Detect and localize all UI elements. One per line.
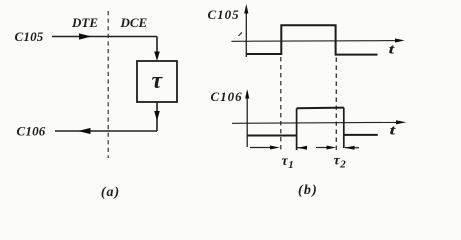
svg-text:C106: C106 xyxy=(211,89,243,104)
C106 axis up arrowhead xyxy=(245,89,249,99)
C105 vertical axis xyxy=(245,9,247,57)
svg-text:DCE: DCE xyxy=(120,15,148,30)
wire corner down from C105 into delay box xyxy=(156,37,158,55)
waveform C106 rising edge extended below axis xyxy=(296,108,298,150)
waveform C106 low segment after pulse xyxy=(344,134,378,136)
svg-text:C105: C105 xyxy=(208,7,240,22)
C105 axis up arrowhead xyxy=(244,4,248,14)
waveform C106 high segment xyxy=(297,107,344,110)
arrowhead on vertical wire pointing down xyxy=(154,111,160,121)
wire C106 horizontal back to DTE xyxy=(55,130,157,132)
svg-text:C105: C105 xyxy=(15,29,44,44)
DTE/DCE interface dashed boundary line xyxy=(107,11,109,158)
svg-text:C106: C106 xyxy=(17,124,46,139)
delay element box U1 xyxy=(137,61,177,102)
arrowhead on C105 wire pointing right xyxy=(79,33,92,39)
wire from box bottom down to C106 line xyxy=(156,102,158,131)
wire C105 horizontal into DCE xyxy=(52,36,157,38)
arrowhead into box top pointing down xyxy=(154,52,160,62)
dimension arrow tau2 right (pointing left at C106 edge) xyxy=(345,147,359,149)
svg-text:(a): (a) xyxy=(101,185,120,200)
C106 horizontal axis t xyxy=(232,121,399,124)
dashed projection line from C105 falling edge xyxy=(335,58,337,151)
waveform C106 falling edge extended below axis xyxy=(343,108,345,148)
waveform C106 low segment before pulse xyxy=(247,135,296,137)
svg-text:DTE: DTE xyxy=(71,15,98,30)
small tick left of C105 axis xyxy=(239,32,243,36)
svg-text:τ: τ xyxy=(151,68,163,94)
C106 vertical axis xyxy=(246,94,248,147)
dashed projection line from C105 rising edge xyxy=(280,57,282,150)
dimension arrow tau2 left (pointing right at dashed line) xyxy=(316,147,329,149)
svg-text:(b): (b) xyxy=(298,183,318,198)
dimension arrow tau1 right (pointing left at C106 edge) xyxy=(297,147,307,149)
C105 axis right arrowhead xyxy=(395,39,405,43)
waveform C105 xyxy=(246,25,377,54)
arrowhead on C106 wire pointing left xyxy=(78,128,91,134)
C105 horizontal axis t xyxy=(231,40,398,43)
C106 axis right arrowhead xyxy=(396,120,406,124)
dimension arrow tau1 left (pointing right at dashed line) xyxy=(250,147,272,149)
